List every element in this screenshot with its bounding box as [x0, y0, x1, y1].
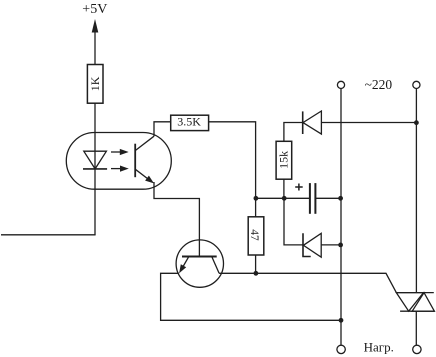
diode D1 [303, 111, 417, 134]
junction dot emitter rail [339, 318, 344, 323]
resistor 47 [248, 217, 264, 255]
wire Q1 collector to triac gate [219, 273, 396, 292]
node +5V label [82, 2, 107, 17]
resistor 15k [276, 141, 292, 179]
svg-text:3.5K: 3.5K [177, 115, 201, 129]
light arrow 2 [111, 166, 129, 172]
capacitor C1 plus sign [295, 184, 303, 191]
capacitor C1 [310, 183, 341, 214]
wire mains left vertical [340, 89, 342, 346]
svg-text:~220: ~220 [365, 77, 393, 92]
node Нагр. label [364, 340, 394, 355]
transistor Q1 [176, 240, 223, 287]
node ~220 label [365, 77, 393, 92]
+5V supply arrow [92, 19, 99, 65]
svg-text:Нагр.: Нагр. [364, 340, 394, 355]
wire LED cathode return (bottom-left) [1, 234, 96, 236]
mains terminal right [413, 81, 420, 88]
svg-text:+5V: +5V [82, 2, 107, 17]
junction dot collector / 47 bottom [254, 271, 259, 276]
wire phototransistor emitter to Q1 base [154, 182, 199, 257]
svg-text:15k: 15k [277, 151, 291, 169]
zener diode D2 [303, 233, 341, 257]
wire 15k bottom to rail [283, 179, 285, 198]
junction dot D1 to mains [414, 120, 419, 125]
wire 3.5K right to 47 top [209, 122, 256, 217]
resistor 1K [87, 65, 103, 104]
wire 15k top to diode row [284, 123, 303, 142]
resistor 3.5K [171, 115, 209, 131]
wire Q1 emitter loop to load rail [161, 273, 341, 320]
load terminal left [337, 345, 345, 353]
junction dot 47 top rail [254, 196, 259, 201]
wire mains right vertical to triac [415, 89, 417, 293]
mains terminal left [337, 81, 344, 88]
svg-text:47: 47 [248, 229, 260, 241]
wire LED anode (1K bottom down through optocoupler) [94, 103, 96, 235]
phototransistor inside optocoupler [135, 136, 154, 183]
wire 47 bottom [255, 255, 257, 273]
load terminal right [413, 345, 421, 353]
wire dc rail to capacitor [256, 197, 310, 199]
junction dot zener right [338, 243, 343, 248]
junction dot cap right [338, 196, 343, 201]
wire phototransistor collector to 3.5K [154, 122, 171, 136]
wire triac bottom to load terminal [415, 311, 417, 345]
LED inside optocoupler [83, 151, 107, 169]
svg-text:1K: 1K [88, 76, 102, 91]
wire zener branch [284, 198, 303, 245]
triac VS1 [396, 293, 434, 312]
junction dot 15k bottom [282, 196, 287, 201]
optocoupler U1 body [66, 133, 171, 190]
light arrow 1 [111, 149, 129, 155]
